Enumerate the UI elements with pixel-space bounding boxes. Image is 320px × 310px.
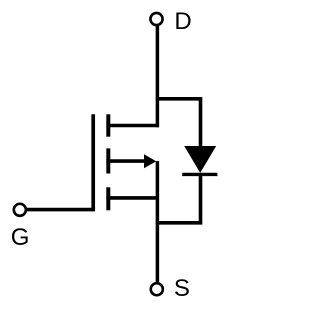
wire gate lead	[27, 208, 95, 212]
svg-text:S: S	[174, 275, 190, 302]
wire diode bottom horizontal	[156, 221, 202, 225]
wire diode branch vertical lower	[199, 174, 203, 224]
wire drain lead	[106, 124, 159, 128]
svg-text:D: D	[174, 8, 191, 35]
transistor Q1 (P-channel power MOSFET with body diode)	[0, 0, 240, 310]
svg-text:G: G	[11, 224, 30, 251]
wire diode branch vertical upper	[199, 97, 203, 147]
gate line G1	[91, 114, 95, 211]
channel bar body	[106, 148, 110, 173]
diode D1 cathode bar	[182, 173, 217, 176]
wire body lead	[106, 159, 146, 163]
terminal circle G	[14, 204, 26, 216]
channel bar source	[106, 187, 110, 210]
terminal circle S	[151, 283, 163, 295]
wire source vertical	[156, 161, 160, 284]
diode D1 triangle	[184, 146, 216, 173]
wire diode branch top horizontal	[156, 97, 202, 101]
channel bar drain	[106, 114, 110, 136]
terminal circle D	[150, 13, 162, 25]
wire source lead	[106, 196, 159, 200]
arrowhead on body lead	[144, 154, 156, 168]
wire drain vertical	[156, 25, 160, 127]
